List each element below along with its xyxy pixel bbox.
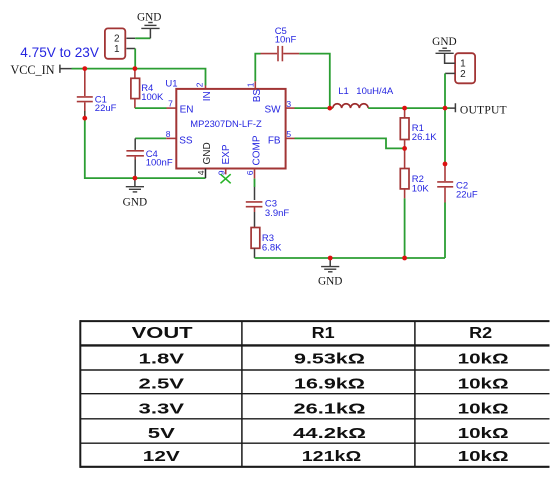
pin 2 IN stub	[205, 86, 207, 89]
svg-text:SS: SS	[179, 136, 193, 147]
ground bottom-middle	[329, 258, 331, 266]
ground bottom-left	[134, 178, 136, 186]
no-connect X on EXP	[221, 174, 231, 183]
resistor R3	[251, 228, 260, 249]
svg-text:GND: GND	[318, 275, 342, 287]
svg-text:10kΩ: 10kΩ	[458, 425, 509, 442]
resistor R1	[404, 108, 406, 118]
svg-text:16.9kΩ: 16.9kΩ	[294, 376, 365, 393]
svg-text:6: 6	[245, 170, 255, 175]
pin 6 COMP stub	[254, 169, 256, 179]
op-amp U1 MP2307 body	[176, 89, 285, 169]
svg-text:26.1kΩ: 26.1kΩ	[294, 400, 366, 417]
svg-text:IN: IN	[202, 91, 213, 101]
svg-text:3.3V: 3.3V	[139, 400, 185, 417]
svg-text:OUTPUT: OUTPUT	[460, 104, 507, 117]
node C1 bottom	[82, 116, 87, 121]
wire L1 to output	[368, 107, 445, 109]
capacitor C2	[437, 166, 453, 203]
svg-text:10K: 10K	[412, 183, 430, 194]
port VCC_IN	[60, 65, 72, 73]
node bottom rail / C4	[133, 176, 138, 181]
svg-text:1: 1	[246, 82, 256, 87]
wire R4 to EN	[135, 107, 167, 109]
wire C5 to SW node	[299, 54, 330, 108]
wire R2 to bottom rail	[404, 198, 406, 258]
svg-text:FB: FB	[268, 136, 281, 147]
svg-text:22uF: 22uF	[456, 190, 478, 201]
svg-text:SW: SW	[264, 105, 281, 116]
wire C2 to bottom rail	[444, 203, 446, 259]
svg-text:L1: L1	[338, 86, 349, 97]
svg-text:1: 1	[114, 44, 120, 55]
inductor L1	[333, 104, 368, 108]
svg-text:R1: R1	[312, 325, 335, 342]
svg-text:26.1K: 26.1K	[412, 132, 437, 143]
svg-text:2: 2	[114, 34, 120, 45]
wire C1 to bottom rail	[85, 118, 206, 178]
svg-text:100K: 100K	[141, 92, 164, 103]
svg-text:GND: GND	[432, 36, 456, 48]
svg-text:EXP: EXP	[221, 144, 232, 164]
node FB/R1/R2	[402, 146, 407, 151]
node VCC junction C1	[82, 66, 87, 71]
svg-text:VOUT: VOUT	[132, 325, 193, 342]
pin 4 GND stub	[205, 169, 207, 179]
svg-text:BS: BS	[252, 89, 263, 103]
svg-text:EN: EN	[180, 105, 194, 116]
svg-text:R2: R2	[469, 325, 492, 342]
wire bottom right rail	[255, 257, 446, 259]
svg-text:7: 7	[168, 99, 173, 109]
node VCC junction R4/P1	[133, 66, 138, 71]
svg-text:1: 1	[460, 59, 466, 70]
svg-text:U1: U1	[165, 79, 177, 90]
ground top-left	[141, 23, 159, 29]
svg-text:6.8K: 6.8K	[262, 242, 282, 253]
wire connector pin1 down to net	[126, 48, 135, 50]
node L1/R1	[402, 106, 407, 111]
svg-text:GND: GND	[202, 142, 213, 164]
svg-text:44.2kΩ: 44.2kΩ	[293, 425, 366, 442]
capacitor C5	[261, 46, 300, 61]
node C2 top	[443, 162, 448, 167]
pin 1 BS stub	[254, 81, 256, 89]
port OUTPUT	[445, 107, 450, 109]
node SW/C5/L1	[327, 106, 332, 111]
capacitor C4	[134, 138, 136, 150]
svg-text:3.9nF: 3.9nF	[265, 208, 289, 219]
resistor R2	[404, 148, 406, 168]
svg-text:10uH/4A: 10uH/4A	[356, 86, 394, 97]
wire P2 pin2 down to output node	[445, 72, 455, 74]
table grid	[80, 320, 549, 468]
svg-text:10kΩ: 10kΩ	[458, 448, 509, 465]
svg-text:5V: 5V	[148, 425, 175, 442]
wire SW to L1	[295, 107, 333, 109]
wire C3 to R3	[254, 212, 256, 228]
svg-text:2: 2	[460, 69, 466, 80]
svg-text:2.5V: 2.5V	[139, 376, 185, 393]
ground top-right	[436, 48, 454, 53]
pin 5 FB stub	[286, 137, 295, 139]
svg-text:10kΩ: 10kΩ	[458, 400, 509, 417]
node rail/ground	[328, 256, 333, 261]
pin 9 EXP stub	[225, 169, 227, 175]
wire VCC_IN main net	[72, 69, 206, 86]
node rail/R2	[402, 256, 407, 261]
svg-text:100nF: 100nF	[146, 158, 173, 169]
svg-text:1.8V: 1.8V	[139, 351, 185, 368]
svg-text:9.53kΩ: 9.53kΩ	[294, 351, 365, 368]
svg-text:8: 8	[166, 129, 171, 139]
capacitor C3	[246, 202, 263, 212]
svg-text:10kΩ: 10kΩ	[458, 351, 509, 368]
svg-text:121kΩ: 121kΩ	[302, 448, 362, 465]
svg-text:2: 2	[194, 82, 204, 87]
svg-text:MP2307DN-LF-Z: MP2307DN-LF-Z	[190, 118, 262, 129]
svg-text:10kΩ: 10kΩ	[458, 376, 509, 393]
pin 8 SS stub	[166, 137, 176, 139]
svg-text:12V: 12V	[143, 448, 180, 465]
wire SS net	[135, 137, 166, 139]
connector P1 top-left	[105, 28, 125, 58]
svg-text:COMP: COMP	[252, 135, 263, 165]
svg-text:GND: GND	[137, 12, 161, 24]
svg-text:10nF: 10nF	[275, 34, 297, 45]
svg-text:22uF: 22uF	[95, 103, 117, 114]
capacitor C1	[77, 69, 93, 111]
connector P2 top-right	[455, 53, 475, 83]
wire BS to C5	[255, 54, 260, 82]
svg-text:VCC_IN: VCC_IN	[11, 63, 55, 77]
wire FB to divider	[295, 138, 405, 148]
pin 3 SW stub	[286, 107, 295, 109]
wire C2 branch up to output node	[444, 108, 446, 164]
svg-text:GND: GND	[123, 196, 147, 208]
wire COMP to C3	[254, 179, 256, 187]
svg-text:4.75V to 23V: 4.75V to 23V	[20, 45, 99, 60]
resistor R4	[134, 69, 136, 78]
wire P2 pin1 to GND	[445, 54, 456, 64]
svg-text:4: 4	[196, 170, 206, 175]
wire connector pin2 to GND	[126, 37, 135, 39]
pin 7 EN stub	[167, 107, 177, 109]
node output junction	[443, 106, 448, 111]
